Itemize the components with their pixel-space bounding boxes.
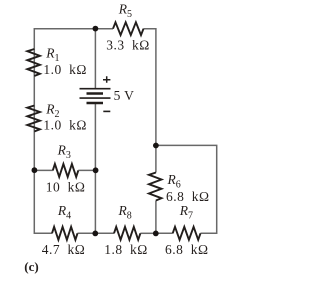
svg-text:1.8 kΩ: 1.8 kΩ <box>104 242 148 257</box>
svg-text:R7: R7 <box>179 203 193 222</box>
svg-text:4.7 kΩ: 4.7 kΩ <box>42 242 86 257</box>
svg-text:(c): (c) <box>24 259 38 274</box>
svg-text:R5: R5 <box>118 1 132 20</box>
svg-text:10 kΩ: 10 kΩ <box>46 179 86 194</box>
svg-text:1.0 kΩ: 1.0 kΩ <box>43 62 87 77</box>
svg-text:1.0 kΩ: 1.0 kΩ <box>43 117 87 132</box>
svg-text:6.8 kΩ: 6.8 kΩ <box>165 242 209 257</box>
svg-text:R8: R8 <box>118 203 132 222</box>
svg-text:R3: R3 <box>57 142 71 161</box>
svg-text:5 V: 5 V <box>114 88 135 103</box>
svg-text:R4: R4 <box>57 203 71 222</box>
svg-text:3.3 kΩ: 3.3 kΩ <box>106 37 150 52</box>
svg-text:R6: R6 <box>167 172 181 191</box>
svg-text:6.8 kΩ: 6.8 kΩ <box>166 189 210 204</box>
